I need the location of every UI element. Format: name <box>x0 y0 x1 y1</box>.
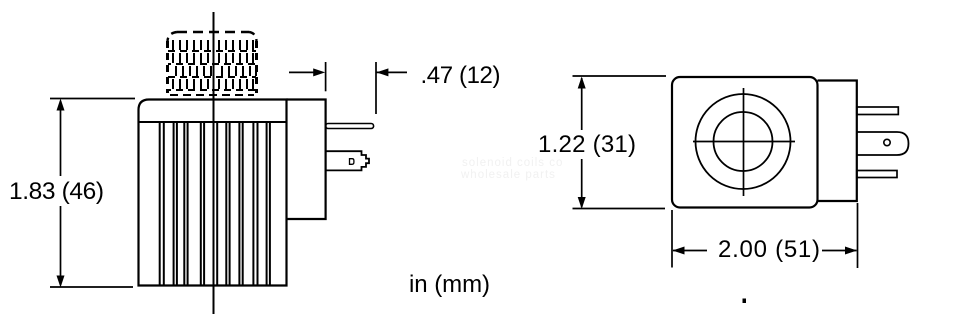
svg-text:solenoid coils co: solenoid coils co <box>462 157 563 169</box>
svg-text:1.83 (46): 1.83 (46) <box>9 178 104 205</box>
svg-text:wholesale parts: wholesale parts <box>460 169 556 181</box>
svg-text:.47 (12): .47 (12) <box>421 62 501 89</box>
svg-text:2.00 (51): 2.00 (51) <box>718 236 820 263</box>
svg-text:1.22 (31): 1.22 (31) <box>538 131 636 158</box>
svg-text:in (mm): in (mm) <box>409 271 490 298</box>
